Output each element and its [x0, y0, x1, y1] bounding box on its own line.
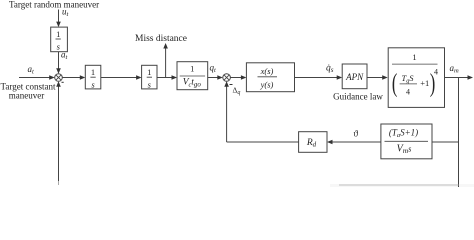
wire: into attitude block from right — [432, 141, 459, 143]
wire: faint bottom feedback remnant — [339, 184, 459, 186]
svg-text:APN: APN — [345, 72, 364, 82]
svg-text:1: 1 — [190, 64, 194, 74]
wire: a_t from integrator into summer S1 — [56, 52, 61, 74]
svg-text:4: 4 — [406, 88, 410, 97]
wire: S1 to integrator 2 — [62, 75, 85, 80]
wire: feedback into S1 from below — [56, 81, 61, 185]
svg-text:4: 4 — [434, 67, 438, 76]
wire: integrator 2 to integrator 3 — [101, 75, 142, 80]
summer S1 (target acceleration comparison) — [55, 74, 63, 82]
wire: q'_s to APN — [295, 75, 343, 80]
block: 1/(Vc tgo) — [177, 62, 208, 90]
wire: a_m feedback drop — [458, 78, 460, 188]
summer S2 (LOS angle comparison) — [223, 74, 231, 82]
svg-text:y(s): y(s) — [260, 80, 274, 90]
wire: a_t constant input into S1 — [19, 75, 55, 80]
block: seeker x(s)/y(s) — [246, 63, 294, 92]
wire: theta into R_d — [327, 140, 381, 145]
wire: integrator 3 to 1/(Vc tgo) with junction — [157, 75, 177, 80]
svg-text:1: 1 — [147, 67, 151, 77]
minus sign at S2 lower input — [230, 84, 233, 85]
block: attitude (T_a S+1)/(V_m s) — [381, 124, 432, 159]
block: integrator 1/s (third) — [142, 65, 157, 89]
svg-text:maneuver: maneuver — [9, 91, 44, 101]
wire: S2 to x(s)/y(s) — [230, 75, 246, 80]
svg-text:Vms: Vms — [397, 144, 412, 156]
svg-text:(TaS+1): (TaS+1) — [389, 128, 418, 140]
label: Target constant maneuver — [1, 82, 56, 101]
wire: q_t into summer S2 — [208, 75, 223, 80]
svg-text:q̇s: q̇s — [326, 64, 334, 74]
svg-text:+1: +1 — [420, 78, 429, 88]
block: radome R_d — [299, 132, 327, 153]
svg-text:x(s): x(s) — [260, 66, 274, 76]
svg-text:Rd: Rd — [306, 138, 317, 149]
wire: R_d output to S2 from below — [224, 81, 298, 142]
block: integrator 1/s (target maneuver) — [51, 27, 68, 52]
svg-text:1: 1 — [412, 52, 416, 62]
block: integrator 1/s (second) — [85, 65, 101, 89]
minus sign at S1 lower input — [62, 82, 64, 83]
wire: u_t input into integrator 1 — [56, 10, 61, 28]
svg-text:(: ( — [392, 69, 398, 98]
svg-text:1: 1 — [56, 29, 60, 39]
svg-text:1: 1 — [91, 67, 95, 77]
block: APN guidance law — [342, 64, 367, 89]
wire: miss distance tap — [163, 43, 168, 78]
svg-text:Miss distance: Miss distance — [135, 34, 187, 44]
svg-text:ϑ: ϑ — [354, 129, 359, 139]
block: flight control 1/((TgS/4+1)^4) — [388, 48, 444, 108]
wire: a_m output — [445, 75, 474, 80]
svg-text:Target random maneuver: Target random maneuver — [9, 0, 99, 10]
svg-text:Guidance law: Guidance law — [333, 92, 383, 102]
wire: APN to airframe block — [367, 75, 388, 80]
